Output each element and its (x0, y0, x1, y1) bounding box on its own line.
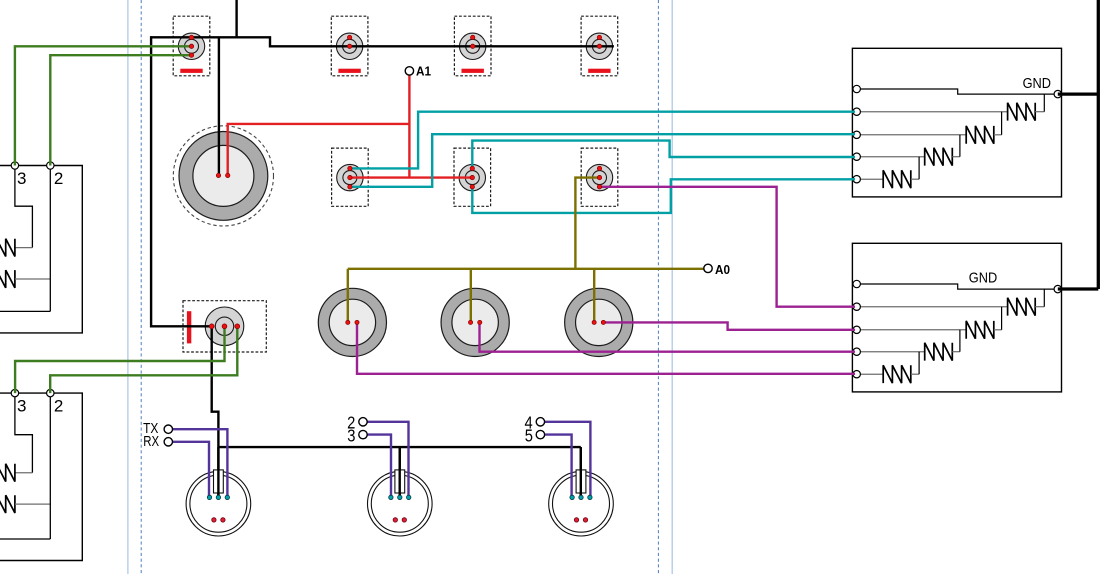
svg-text:5: 5 (525, 425, 533, 445)
svg-text:A1: A1 (416, 64, 431, 79)
svg-text:A0: A0 (715, 262, 730, 277)
svg-text:RX: RX (143, 434, 159, 450)
svg-text:GND: GND (1023, 76, 1051, 92)
svg-text:3: 3 (17, 396, 26, 415)
svg-text:2: 2 (54, 169, 63, 188)
svg-text:3: 3 (347, 425, 355, 445)
svg-text:GND: GND (969, 270, 997, 286)
svg-text:3: 3 (17, 169, 26, 188)
svg-text:2: 2 (54, 396, 63, 415)
